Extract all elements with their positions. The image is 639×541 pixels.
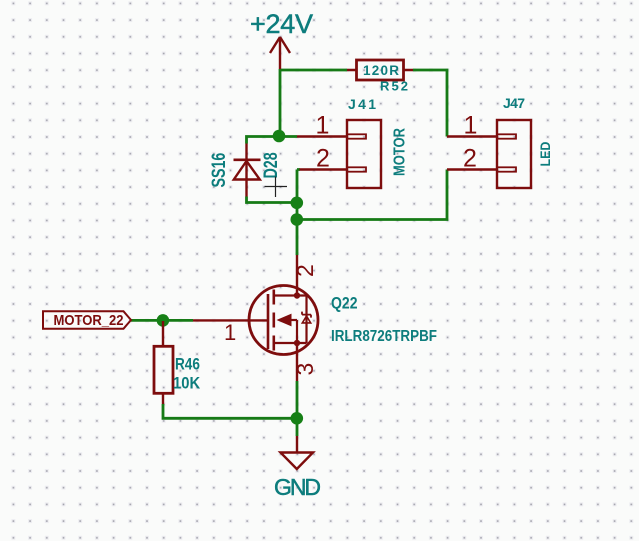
- svg-text:1: 1: [464, 112, 478, 140]
- svg-text:R52: R52: [380, 79, 408, 94]
- svg-text:SS16: SS16: [208, 153, 229, 188]
- svg-text:1: 1: [316, 112, 330, 140]
- svg-text:2: 2: [463, 144, 477, 172]
- svg-text:2: 2: [316, 144, 330, 172]
- svg-text:LED: LED: [537, 141, 553, 166]
- svg-text:IRLR8726TRPBF: IRLR8726TRPBF: [331, 328, 437, 345]
- svg-text:J47: J47: [503, 95, 525, 111]
- svg-text:GND: GND: [274, 474, 321, 500]
- svg-text:D28: D28: [260, 152, 281, 178]
- svg-text:2: 2: [292, 264, 318, 277]
- svg-text:120R: 120R: [363, 63, 399, 78]
- svg-text:10K: 10K: [173, 375, 201, 393]
- svg-text:MOTOR_22: MOTOR_22: [54, 311, 124, 328]
- svg-text:Q22: Q22: [331, 294, 358, 313]
- svg-text:J41: J41: [348, 96, 376, 112]
- svg-text:1: 1: [224, 320, 236, 345]
- svg-text:MOTOR: MOTOR: [391, 128, 409, 176]
- svg-text:+24V: +24V: [250, 9, 313, 39]
- svg-text:3: 3: [292, 363, 318, 376]
- svg-text:R46: R46: [175, 355, 200, 374]
